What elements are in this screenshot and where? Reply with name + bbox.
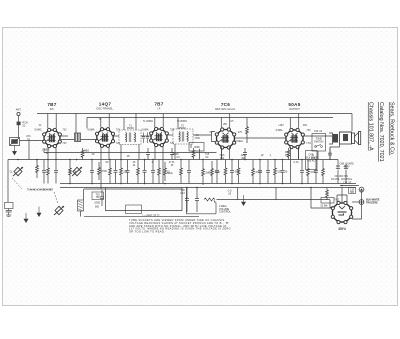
wire osc section link	[84, 188, 182, 190]
svg-text:OUTPUT: OUTPUT	[289, 107, 300, 111]
resistor R21 V3 bias	[158, 160, 161, 184]
transformer T5 output primary	[329, 133, 338, 144]
capacitor C13 .006	[231, 160, 233, 171]
svg-text:72V: 72V	[170, 142, 175, 145]
wire junction drop above L1	[75, 114, 77, 134]
wire V2 plate to T1 can	[114, 135, 120, 137]
potentiometer R17 2 MEG volume control	[204, 198, 216, 214]
wire V5 screen drop	[298, 147, 300, 160]
resistor R14 cathode 50A5	[287, 148, 290, 160]
wire output sec return	[330, 144, 340, 160]
svg-text:C16: C16	[311, 158, 316, 160]
capacitor C12 .02	[196, 188, 198, 199]
svg-text:470K: 470K	[101, 170, 107, 173]
svg-text:C13: C13	[180, 193, 185, 195]
capacitor C14 .02	[244, 148, 246, 153]
wire cathode lead tube 3	[154, 147, 156, 160]
resistor R15 grid 470K	[307, 160, 310, 184]
wire rectifier cathode out	[311, 188, 332, 209]
svg-text:90V: 90V	[303, 125, 308, 127]
wire V3 plate to T2 can	[167, 134, 173, 136]
wire detector output drop	[221, 148, 223, 160]
capacitor C19 .1 line	[315, 160, 317, 171]
svg-text:OSC-TRANSL.: OSC-TRANSL.	[96, 107, 114, 111]
variable capacitor C1A RF tuning	[14, 167, 22, 175]
capacitor C24 ant pad	[43, 160, 45, 171]
wire tone switch drop	[317, 151, 319, 160]
wire cathode lead tube 5	[290, 147, 292, 160]
ground B- arrow near C7	[242, 195, 246, 206]
wire padder left lead	[81, 189, 84, 217]
wire T1 can to V3 grid	[141, 135, 151, 137]
wire heater run to rectifier	[217, 199, 331, 201]
inductor T2 2nd IF 456KC winding 2	[187, 132, 188, 142]
svg-text:52 MA: 52 MA	[321, 205, 328, 208]
svg-text:7.5V: 7.5V	[306, 142, 311, 145]
resistor R2 cathode	[81, 148, 84, 160]
wire can T1 B+ drop	[123, 118, 125, 131]
ground arrow near loop return	[37, 207, 41, 217]
resistor R10 audio grid	[237, 160, 240, 184]
svg-text:7C6: 7C6	[221, 102, 230, 107]
svg-text:R.F.: R.F.	[50, 107, 55, 111]
capacitor C29 det bypass	[216, 160, 218, 171]
tube V1 7B7 RF amplifier envelope	[43, 128, 62, 147]
inductor RCH antenna choke	[17, 122, 21, 126]
transformer T1 1st IF 456KC core	[128, 133, 130, 143]
svg-text:Sears, Roebuck & Co.: Sears, Roebuck & Co.	[389, 102, 395, 155]
tube V5 50A5 output envelope	[285, 128, 305, 148]
wire plate lead tube 3	[162, 114, 164, 128]
svg-text:SWITCH: SWITCH	[314, 141, 324, 144]
capacitor C16 .05	[267, 160, 269, 171]
svg-text:CAB. GUARD: CAB. GUARD	[339, 163, 354, 166]
resistor R22 IF screen	[192, 148, 195, 160]
svg-text:782: 782	[96, 196, 101, 199]
variable capacitor C1B oscillator tuning	[73, 167, 81, 175]
svg-text:450 V: 450 V	[343, 166, 349, 168]
wire rectifier plate feed	[341, 188, 343, 204]
wire output transformer feed	[351, 114, 353, 132]
svg-text:DET-AVC-1st A.F.: DET-AVC-1st A.F.	[215, 107, 236, 111]
svg-text:SO: SO	[105, 162, 109, 164]
transformer T5 secondary	[340, 132, 352, 144]
svg-text:7B7: 7B7	[154, 102, 163, 107]
wire screen bus left end drop	[86, 118, 88, 129]
svg-text:CONTROL: CONTROL	[219, 210, 231, 213]
junction dots on buses	[17, 159, 362, 193]
capacitor C20 .05 tone	[329, 149, 331, 154]
svg-text:ON VOL. CONTROL: ON VOL. CONTROL	[331, 179, 353, 181]
svg-text:.0008: .0008	[194, 146, 201, 149]
wire screen supply sub bus	[87, 117, 333, 119]
svg-text:72V: 72V	[62, 129, 67, 132]
capacitor C5 .05	[91, 160, 93, 171]
wire T2 can to V4 diode	[193, 134, 212, 136]
wire plate lead tube 1	[55, 114, 57, 129]
wire heater run drop a	[237, 188, 239, 200]
wire can T2 B+ drop	[177, 118, 179, 130]
wire rectifier heater feed	[337, 195, 347, 204]
capacitor C18 .02	[301, 160, 303, 171]
svg-text:MEG: MEG	[167, 172, 173, 175]
svg-text:Chassis 101.807, -A: Chassis 101.807, -A	[368, 102, 374, 151]
svg-text:456KC: 456KC	[179, 127, 187, 130]
capacitor C10 .00025	[171, 148, 173, 153]
resistor R12 2.2MEG	[246, 118, 249, 144]
wire plate lead tube 5	[298, 114, 300, 128]
svg-text:47K: 47K	[285, 152, 290, 154]
capacitor C30 loop pad	[101, 190, 103, 197]
capacitor C2 line bypass stack bottom-left	[5, 203, 14, 217]
svg-text:5-6MC: 5-6MC	[34, 129, 41, 132]
wire cathode lead tube 2	[100, 147, 102, 160]
ganged tuning dashed link	[12, 178, 58, 204]
wire grid return tube 2	[108, 147, 110, 160]
capacitor C11 .008	[186, 188, 188, 199]
jack J2 line socket	[359, 200, 364, 205]
inductor L1 antenna trimmer between V1 V2	[75, 133, 81, 142]
wire grid return tube 4	[229, 147, 231, 160]
svg-text:ON-OFF SW.: ON-OFF SW.	[335, 176, 349, 178]
wire cathode/ground bus	[60, 183, 356, 185]
svg-text:47 M..: 47 M..	[169, 162, 176, 164]
resistor R16 33	[322, 160, 325, 184]
tube V6 35Y4 rectifier envelope	[331, 201, 353, 223]
wire plate lead tube 2	[108, 114, 110, 128]
resistor R11 47.0K	[252, 160, 255, 184]
resistor R6 10 MEG	[164, 162, 167, 181]
wire cathode lead tube 4	[221, 147, 223, 160]
svg-text:45V: 45V	[285, 155, 290, 157]
box dial lamp assembly	[126, 205, 142, 214]
variable capacitor C1C trimmer section	[55, 206, 63, 214]
antenna ANT terminal	[17, 112, 20, 137]
resistor R1 grid 47K	[69, 160, 72, 184]
svg-text:35Y4: 35Y4	[338, 227, 346, 231]
wire screen lead tube 2	[100, 118, 102, 128]
resistor R4 osc grid	[120, 160, 123, 184]
svg-text:I.F.: I.F.	[157, 107, 161, 111]
box speaker plug assembly	[306, 151, 318, 170]
wire grid return tube 1	[55, 147, 57, 160]
transformer T1 1st IF 456KC can	[119, 130, 141, 145]
wire screen lead tube 3	[154, 118, 156, 128]
svg-text:7239: 7239	[194, 137, 200, 140]
wire loop return bottom bus	[84, 215, 199, 217]
capacitor C25 V1 cathode bypass	[55, 160, 57, 171]
part number box T16 782	[92, 192, 104, 200]
wire can T2 right leg	[190, 144, 192, 148]
capacitor C8 250	[152, 160, 154, 171]
svg-text:C-16: C-16	[294, 162, 300, 164]
wire V1 grid to T1 coil	[60, 135, 68, 137]
tube V3 7B7 IF amplifier envelope	[150, 127, 169, 146]
speaker SP1	[352, 132, 361, 145]
wire V3 cathode long drop	[162, 160, 164, 184]
svg-text:.02W: .02W	[240, 155, 246, 157]
svg-text:C15 .01: C15 .01	[314, 130, 323, 133]
wire screen lead tube 4	[220, 118, 222, 128]
resistor R3 470K	[98, 162, 101, 180]
capacitor C28 IF bypass	[188, 160, 190, 171]
wire heater run drop b	[275, 188, 277, 200]
svg-text:T1B: T1B	[180, 190, 185, 192]
svg-text:.00025: .00025	[171, 154, 179, 156]
wire filter caps top a	[312, 160, 338, 164]
wire speaker top line	[340, 131, 352, 133]
wire grid return line	[44, 148, 217, 153]
transformer T2 2nd IF 456KC core	[181, 132, 183, 142]
capacitor C22 C23 filter electrolytics	[336, 164, 348, 170]
wire grid return tube 3	[162, 147, 164, 160]
wire rectifier output segment	[340, 185, 359, 187]
wire cathode lead tube 1	[47, 147, 49, 160]
svg-text:456KC: 456KC	[127, 127, 135, 130]
svg-text:OR TOO LOW TO READ.: OR TOO LOW TO READ.	[129, 230, 165, 234]
svg-text:.0005: .0005	[94, 202, 101, 205]
inductor L2 oscillator padder coil	[78, 200, 84, 211]
wire volume control loop	[187, 188, 217, 214]
capacitor C15 .006	[259, 160, 261, 171]
wire V5 plate to output transformer	[303, 135, 332, 137]
wire V1 plate to L1	[61, 139, 97, 141]
svg-text:2.2 MEG.: 2.2 MEG.	[233, 140, 243, 143]
wire V4 plate coupling	[235, 137, 248, 139]
wire can T1 B+ drop b	[135, 114, 137, 131]
ground arrow below C1A	[24, 213, 28, 223]
capacitor C26 osc pad	[115, 160, 117, 171]
svg-text:70V: 70V	[306, 129, 311, 132]
wire grid return tube 5	[298, 147, 300, 160]
wire B- heater string bus	[60, 187, 356, 189]
svg-text:6.8MA: 6.8MA	[142, 129, 149, 132]
resistor R7 diode load	[180, 160, 183, 184]
wire can T1 right leg	[138, 145, 140, 160]
svg-text:*NO.: *NO.	[334, 199, 340, 202]
inductor T1 1st IF 456KC winding 2	[134, 133, 135, 143]
transformer T2 2nd IF 456KC can	[173, 129, 193, 144]
wire B+ plate supply top bus	[37, 113, 352, 115]
tube V2 14Q7 converter envelope	[95, 128, 114, 148]
wire rectifier to line	[352, 201, 359, 203]
wire left AVC drop	[7, 160, 9, 203]
svg-text:3-6MA: 3-6MA	[275, 129, 282, 132]
resistor R13 150	[274, 160, 277, 184]
resistor R5 screen	[137, 160, 140, 184]
svg-text:TUNING CONDENSER: TUNING CONDENSER	[27, 189, 53, 192]
capacitor C7 .05	[144, 160, 146, 171]
svg-text:C18 .05: C18 .05	[343, 183, 352, 185]
wire heater run into rectifier	[330, 200, 333, 208]
jack J1 power plug	[359, 187, 364, 192]
wire line cord vertical	[352, 192, 362, 219]
resistor R18 ant shunt	[36, 160, 39, 178]
svg-text:TRACERS: TRACERS	[366, 202, 378, 205]
fuse resistor L16 505 box	[349, 188, 356, 194]
wire screen lead tube 5	[289, 118, 291, 128]
svg-text:505: 505	[95, 206, 100, 209]
inductor T2 2nd IF 456KC winding 1	[179, 132, 180, 142]
switch SW2 contacts	[315, 146, 317, 148]
wire can T2 left leg	[174, 144, 176, 160]
resistor R20 V2 bias	[109, 160, 112, 184]
resistor R24 surge	[326, 188, 329, 200]
svg-text:+25V: +25V	[278, 125, 284, 127]
resistor R19 V1 cathode bias	[47, 160, 50, 184]
box ballast left of rectifier	[321, 198, 334, 204]
wire V4 diode bracket	[212, 132, 216, 142]
capacitor trimmer pair before V3	[142, 133, 149, 144]
switch SW2 tone switch box	[312, 134, 326, 152]
svg-text:* — PART OF T2: * — PART OF T2	[142, 214, 160, 217]
inductor T1 1st IF 456KC winding 1	[126, 133, 127, 143]
svg-text:ANT.: ANT.	[16, 108, 22, 112]
wire V5 cathode long drop	[290, 160, 292, 184]
svg-text:7B7: 7B7	[47, 102, 56, 107]
wire plate lead tube 4	[229, 114, 231, 128]
capacitor C6 .0001	[127, 160, 129, 171]
svg-text:T2 456KC: T2 456KC	[177, 121, 188, 123]
resistor R9 470K AVC	[211, 161, 214, 183]
wire screen lead tube 1	[47, 114, 49, 129]
capacitor C27 V3 bypass	[147, 148, 149, 153]
svg-text:T1 456KC: T1 456KC	[143, 121, 154, 123]
resistor R23 AVC filter	[224, 160, 227, 184]
svg-text:1 MEG.: 1 MEG.	[42, 150, 50, 152]
svg-text:47V: 47V	[238, 131, 243, 134]
wire osc cathode long drop	[100, 160, 102, 190]
svg-text:14Q7: 14Q7	[99, 102, 112, 107]
wire AVC bus	[8, 159, 312, 161]
svg-text:L MEG.: L MEG.	[82, 151, 90, 153]
wire V1 grid return left	[20, 141, 45, 160]
wire filter caps drop a	[337, 170, 339, 184]
svg-text:OSS: OSS	[220, 155, 225, 157]
wire can T1 left leg	[120, 145, 122, 160]
switch S1 wave trap box	[10, 138, 20, 146]
wire filter caps drop b	[345, 170, 347, 184]
svg-text:73V: 73V	[62, 142, 67, 145]
wire coupling cap to V5 grid	[247, 137, 286, 139]
tube V4 7C6 detector envelope	[215, 128, 236, 149]
svg-text:C12: C12	[220, 158, 225, 160]
resistor R8 1 MEG	[202, 160, 205, 186]
svg-text:6.8MA: 6.8MA	[88, 129, 95, 132]
svg-text:2V: 2V	[39, 125, 42, 127]
wire inner shield loop	[106, 188, 183, 211]
wire det box drop	[199, 149, 201, 160]
svg-text:ATC: ATC	[26, 135, 31, 138]
capacitor C17 20MFD	[282, 160, 284, 171]
svg-text:50A5: 50A5	[288, 102, 300, 107]
svg-text:Catalog Nos. 7020, 7021: Catalog Nos. 7020, 7021	[378, 102, 384, 162]
capacitor C9 box .0008	[189, 143, 204, 152]
ground arrow below wave trap	[13, 146, 17, 155]
